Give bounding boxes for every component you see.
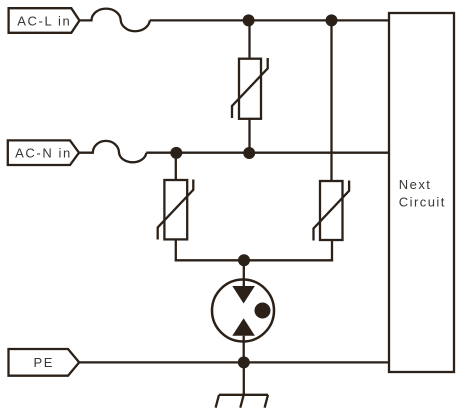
wire AC-L line <box>150 19 389 21</box>
wire N to MOV2 <box>175 153 177 180</box>
node L-MOV3 junction <box>326 14 338 26</box>
node L-MOV1 junction <box>243 14 255 26</box>
GDT upper electrode triangle <box>232 286 255 304</box>
input tag AC-L <box>9 8 80 33</box>
wire AC-N line <box>146 152 389 154</box>
wire bottom bus <box>176 259 332 260</box>
next circuit box <box>389 13 454 372</box>
wire PE line <box>79 361 389 363</box>
svg-text:Next: Next <box>399 177 432 192</box>
GDT gas-filled dot <box>255 303 271 319</box>
wire L to MOV3 vertical <box>330 20 332 181</box>
varistor MOV1 <box>232 58 268 119</box>
GDT lower electrode triangle <box>232 318 255 335</box>
ground symbol <box>216 395 268 408</box>
svg-text:PE: PE <box>34 355 55 370</box>
node PE-GDT junction <box>238 356 250 368</box>
flexible lead squiggle L <box>80 9 150 32</box>
node N-MOV1 junction <box>243 147 255 159</box>
svg-text:AC-L in: AC-L in <box>17 13 71 28</box>
node N-MOV2 junction <box>170 147 182 159</box>
wire MOV3 to bottom bus <box>331 240 333 260</box>
input tag AC-N <box>8 140 79 165</box>
node bus-GDT junction <box>238 254 250 266</box>
input tag PE <box>9 349 80 376</box>
wire MOV2 to bottom bus <box>175 239 177 260</box>
svg-text:Circuit: Circuit <box>399 195 446 210</box>
wire MOV1 to N <box>248 119 250 153</box>
wire GDT to PE <box>243 336 245 363</box>
wire PE to ground <box>243 362 245 394</box>
svg-text:AC-N in: AC-N in <box>15 146 72 161</box>
flexible lead squiggle N <box>79 141 146 162</box>
varistor MOV2 <box>158 180 194 240</box>
gas discharge tube GDT circle <box>212 280 274 342</box>
varistor MOV3 <box>314 181 350 241</box>
wire L to MOV1 <box>248 20 250 58</box>
wire bus to GDT <box>243 260 245 287</box>
